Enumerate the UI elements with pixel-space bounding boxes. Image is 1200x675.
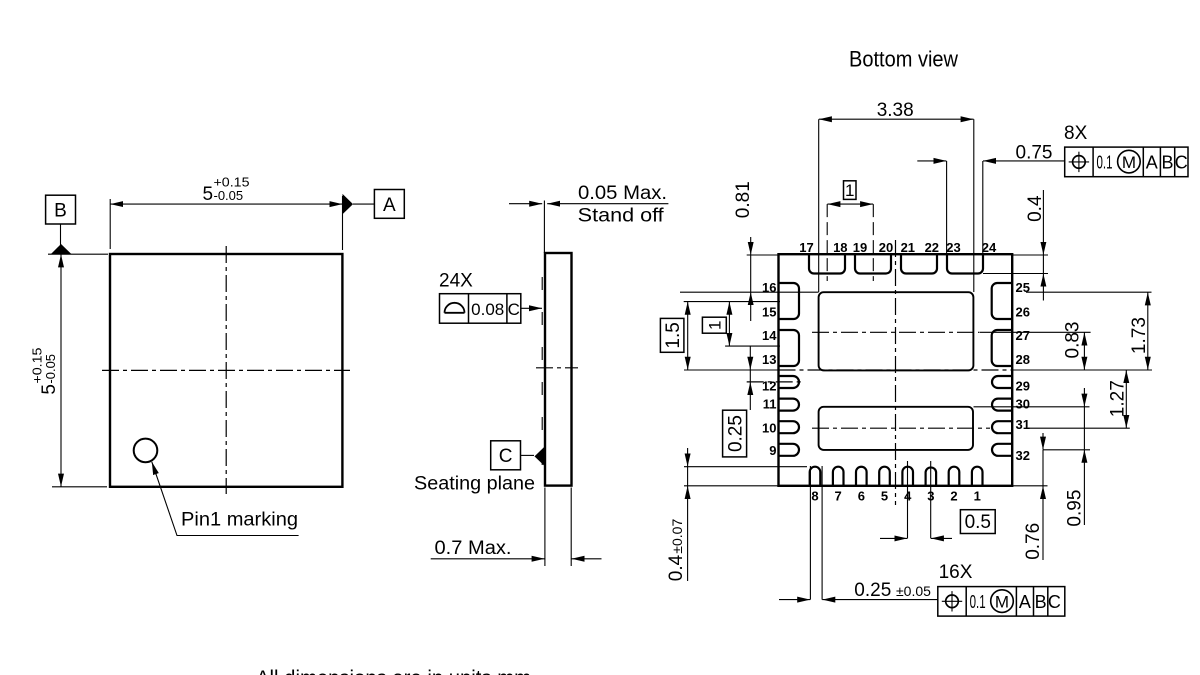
svg-text:14: 14 <box>762 328 777 343</box>
pkg top edge ext right <box>1013 254 1048 256</box>
dimension 1.73 <box>1147 292 1149 369</box>
dim 0.95 line body <box>1083 407 1085 450</box>
datum B triangle <box>51 244 72 254</box>
left wide pad 14/13 <box>779 330 800 366</box>
svg-text:Pin1 marking: Pin1 marking <box>181 510 298 531</box>
bottom view horizontal centerline <box>779 369 1014 371</box>
svg-text:8: 8 <box>811 489 818 504</box>
bottom view vertical centerline <box>895 240 897 505</box>
M circle modifier <box>1118 150 1141 173</box>
dimension 1.5 <box>687 302 689 370</box>
top pad 21/22 <box>901 254 937 273</box>
dimension 0.4 +-0.07 lower arrow <box>687 486 689 581</box>
svg-text:C: C <box>508 300 520 319</box>
svg-text:M: M <box>995 592 1009 611</box>
svg-text:12: 12 <box>762 378 776 393</box>
right wide pad 27/28 <box>992 330 1013 366</box>
dim text 1.27 <box>1108 380 1129 417</box>
dim 0.76 line body <box>1042 450 1044 486</box>
datum B leader <box>60 224 62 245</box>
svg-text:9: 9 <box>769 443 776 458</box>
lower thermal pad centerline <box>812 427 990 429</box>
pad 23/24 left edge ext <box>946 161 948 254</box>
svg-text:24: 24 <box>982 240 997 255</box>
dimension 1 left <box>728 302 730 346</box>
svg-text:5: 5 <box>39 384 60 395</box>
svg-text:19: 19 <box>853 240 867 255</box>
svg-text:22: 22 <box>925 240 939 255</box>
datum B box <box>46 195 76 224</box>
svg-text:2: 2 <box>950 489 957 504</box>
svg-text:-0.05: -0.05 <box>43 354 58 384</box>
svg-text:Stand off: Stand off <box>578 206 665 227</box>
thermal pad lower <box>819 407 973 450</box>
dim text 0.76 <box>1023 523 1044 560</box>
dimension 0.4 bottom arrow <box>1042 274 1044 301</box>
upper thermal centerline ext right <box>979 331 1090 333</box>
svg-text:B: B <box>1161 153 1173 173</box>
svg-text:5: 5 <box>881 489 888 504</box>
hidden lead line side view <box>541 277 543 472</box>
svg-text:A: A <box>1146 153 1158 173</box>
width dim right extension line <box>342 196 344 250</box>
dimension 0.05 standoff right arrow <box>547 203 668 205</box>
svg-text:±0.07: ±0.07 <box>669 519 685 554</box>
svg-text:7: 7 <box>835 489 842 504</box>
bottom pads top ext left <box>684 466 807 468</box>
profile of surface symbol <box>445 303 465 313</box>
package body bottom view <box>779 254 1013 486</box>
package body top view <box>110 254 342 487</box>
svg-text:0.1: 0.1 <box>1097 153 1113 173</box>
bottom pad 4 <box>902 467 913 486</box>
svg-text:0.76: 0.76 <box>1023 523 1044 560</box>
datum C box <box>491 441 521 470</box>
svg-text:27: 27 <box>1016 328 1030 343</box>
fcf arrow to lead <box>521 307 542 309</box>
svg-text:Bottom view: Bottom view <box>849 47 958 72</box>
height dim bottom extension line <box>52 486 107 488</box>
svg-text:8X: 8X <box>1064 123 1088 144</box>
svg-text:0.4: 0.4 <box>1025 195 1046 222</box>
svg-text:0.25: 0.25 <box>725 415 746 452</box>
right pad 29 <box>992 376 1012 388</box>
thermal pad left ext up <box>818 119 820 292</box>
dimension 0.5 left arrow <box>880 537 907 539</box>
svg-text:1.73: 1.73 <box>1129 317 1150 354</box>
pad 17/18 center ext dashed <box>826 204 828 281</box>
left pad 11 <box>779 399 800 411</box>
dim 0.25 line body <box>749 370 751 382</box>
pad12 centerline <box>747 381 801 383</box>
svg-text:Seating plane: Seating plane <box>414 474 535 495</box>
basic dim box 1 top <box>844 181 857 200</box>
dimension 0.25 +-0.05 right arrow <box>822 599 938 601</box>
svg-text:20: 20 <box>879 240 893 255</box>
pad 15/16 center ext <box>684 301 780 303</box>
lower thermal centerline ext right <box>1028 427 1130 429</box>
bottom pad 3 <box>926 467 937 485</box>
svg-text:0.7 Max.: 0.7 Max. <box>435 538 512 559</box>
lower thermal pad top ext right <box>974 406 1090 408</box>
pkg centerline ext right <box>1013 369 1152 371</box>
svg-text:1: 1 <box>974 489 981 504</box>
dimension 0.7 Max right segment <box>572 558 602 560</box>
svg-text:1: 1 <box>705 320 724 329</box>
svg-text:A: A <box>383 195 396 216</box>
dimension 0.76 lower arrow <box>1042 486 1044 560</box>
dim 0.81 line body <box>750 255 752 292</box>
dimension 0.25 upper arrow <box>749 346 751 370</box>
dim text 0.4 <box>1025 195 1046 222</box>
svg-text:0.08: 0.08 <box>471 300 504 319</box>
svg-text:All dimensions are in units mm: All dimensions are in units mm <box>256 667 531 675</box>
svg-text:0.25: 0.25 <box>854 580 891 601</box>
thickness dim right extension <box>570 488 572 567</box>
dimension line 5 height <box>60 254 62 486</box>
dimension 0.81 lower arrow <box>750 292 752 321</box>
dim text 0.95 <box>1065 490 1086 527</box>
datum C triangle <box>535 447 545 466</box>
datum B base extension line <box>48 253 108 255</box>
pkg centerline ext left <box>684 369 779 371</box>
basic dim box 1 left <box>702 317 726 333</box>
thermal pad upper <box>819 292 974 370</box>
datum A leader <box>353 203 374 205</box>
svg-text:0.83: 0.83 <box>1063 322 1084 359</box>
svg-text:0.05 Max.: 0.05 Max. <box>578 183 667 204</box>
svg-text:21: 21 <box>901 240 915 255</box>
bottom pad 8 <box>810 467 821 486</box>
svg-text:-0.05: -0.05 <box>214 188 244 203</box>
left pad 10 <box>779 421 800 433</box>
svg-text:0.1: 0.1 <box>970 592 986 612</box>
thickness dim left extension <box>544 488 546 567</box>
top view horizontal centerline <box>102 369 350 371</box>
position symbol bottom <box>946 595 959 608</box>
svg-text:±0.05: ±0.05 <box>896 583 931 599</box>
feature control frame 24x profile <box>440 294 521 324</box>
bottom pad 6 <box>856 467 867 486</box>
bottom pad 1 <box>972 467 983 486</box>
thermal pad top ext left <box>680 291 819 293</box>
svg-text:0.4: 0.4 <box>666 554 687 581</box>
pad 19/20 center ext dashed <box>872 204 874 281</box>
svg-text:17: 17 <box>799 240 813 255</box>
svg-text:3.38: 3.38 <box>877 100 914 121</box>
pad4 center ext <box>907 461 909 538</box>
rotated dim text 5 height <box>30 348 61 395</box>
dimension 0.75 pad width left arrow <box>917 160 946 162</box>
dimension 0.25 +-0.05 left arrow <box>779 599 810 601</box>
svg-text:1.27: 1.27 <box>1108 380 1129 417</box>
dimension 1 top pad pitch <box>827 203 873 205</box>
upper thermal pad centerline <box>812 331 979 333</box>
svg-text:18: 18 <box>833 240 847 255</box>
dimension 0.76 upper arrow <box>1042 433 1044 450</box>
svg-text:26: 26 <box>1016 305 1030 320</box>
bottom pad 7 <box>833 467 844 486</box>
svg-text:5: 5 <box>203 184 214 205</box>
side view centerline <box>536 367 578 369</box>
dim 0.4pm line body <box>687 467 689 486</box>
dimension 0.95 upper arrow <box>1083 388 1085 407</box>
dimension 0.75 pad width right arrow <box>983 160 1065 162</box>
dim text 1.73 <box>1129 317 1150 354</box>
svg-text:C: C <box>499 446 513 467</box>
left pad 9 <box>779 444 800 456</box>
svg-text:25: 25 <box>1016 280 1030 295</box>
pkg top edge ext left <box>747 254 779 256</box>
thermal pad top ext right <box>1026 291 1152 293</box>
svg-text:11: 11 <box>763 397 777 412</box>
left wide pad 16/15 <box>779 283 800 319</box>
datum C leader <box>521 454 535 456</box>
width dim left extension line <box>109 199 111 249</box>
pkg bottom edge ext right <box>1013 485 1048 487</box>
pkg bottom edge ext left <box>684 485 779 487</box>
svg-text:1: 1 <box>845 181 854 200</box>
position symbol <box>1073 156 1086 169</box>
svg-text:0.5: 0.5 <box>965 512 991 533</box>
lower thermal pad bottom ext right <box>1043 449 1090 451</box>
dimension 0.4 +-0.07 upper arrow <box>687 448 689 467</box>
pad 13/14 center ext <box>725 345 780 347</box>
svg-text:M: M <box>1122 153 1136 172</box>
basic dim box 0.5 <box>960 510 995 534</box>
svg-text:0.81: 0.81 <box>733 181 754 218</box>
top view vertical centerline <box>225 246 227 494</box>
pad8 left edge ext <box>809 466 811 600</box>
svg-text:C: C <box>1175 153 1188 173</box>
dimension line 5 width <box>110 203 342 205</box>
svg-text:16X: 16X <box>939 562 973 583</box>
bottom pad 2 <box>949 467 960 486</box>
dim text 0.83 <box>1063 322 1084 359</box>
svg-text:10: 10 <box>762 421 776 436</box>
dimension 1.27 <box>1125 370 1127 428</box>
feature control frame 8x position <box>1065 147 1188 177</box>
svg-text:1.5: 1.5 <box>663 322 684 348</box>
svg-text:B: B <box>1035 592 1047 612</box>
right pad 32 <box>992 444 1012 456</box>
svg-text:0.75: 0.75 <box>1016 142 1053 163</box>
left pad 12 <box>779 376 800 388</box>
dimension 0.05 standoff left arrow <box>509 203 542 205</box>
dimension 0.95 lower arrow <box>1083 450 1085 525</box>
pin1 marking circle <box>134 439 158 463</box>
top pads bottom ext right <box>983 273 1048 275</box>
top pad 17/18 <box>809 254 845 273</box>
svg-text:B: B <box>54 201 67 222</box>
right pad 31 <box>992 421 1012 433</box>
rotated dim text 0.4 +-0.07 <box>666 519 687 582</box>
pad8 right edge ext <box>821 466 823 600</box>
dimension 0.25 lower arrow <box>749 382 751 410</box>
datum A box <box>374 190 404 219</box>
svg-text:A: A <box>1019 592 1031 612</box>
package body side view <box>545 253 572 486</box>
bottom pad 5 <box>879 467 890 486</box>
dimension 0.4 top arrow <box>1042 190 1044 255</box>
dim text 0.81 <box>733 181 754 218</box>
datum A triangle <box>343 194 354 214</box>
svg-text:C: C <box>1048 592 1061 612</box>
top pad 23/24 <box>947 254 983 273</box>
svg-text:0.95: 0.95 <box>1065 490 1086 527</box>
svg-text:6: 6 <box>858 489 865 504</box>
svg-text:29: 29 <box>1016 378 1030 393</box>
svg-text:24X: 24X <box>439 271 473 292</box>
dimension 0.83 <box>1083 333 1085 370</box>
basic dim box 0.25 <box>723 410 747 457</box>
M circle modifier bottom <box>991 590 1014 613</box>
dimension 0.5 right arrow <box>931 537 952 539</box>
dimension 0.7 Max left segment <box>431 558 545 560</box>
right wide pad 25/26 <box>992 283 1013 319</box>
svg-text:4: 4 <box>904 489 912 504</box>
svg-text:31: 31 <box>1016 417 1030 432</box>
svg-text:32: 32 <box>1016 448 1030 463</box>
feature control frame 16x position <box>938 587 1065 617</box>
top pad 19/20 <box>855 254 891 273</box>
dimension 0.81 upper arrow <box>750 237 752 255</box>
thermal pad right ext up <box>973 119 975 292</box>
standoff extension line <box>543 201 545 254</box>
svg-text:13: 13 <box>762 352 776 367</box>
svg-text:15: 15 <box>762 305 776 320</box>
svg-text:16: 16 <box>762 280 776 295</box>
pad3 center ext <box>930 461 932 538</box>
svg-text:28: 28 <box>1016 352 1030 367</box>
pad 23/24 right edge ext <box>982 161 984 254</box>
right pad 30 <box>992 399 1012 411</box>
pin1 leader line <box>152 462 299 536</box>
dim 0.4 line body <box>1042 255 1044 274</box>
svg-text:23: 23 <box>946 240 960 255</box>
basic dim box 1.5 <box>660 318 684 352</box>
svg-text:30: 30 <box>1016 397 1030 412</box>
dimension 3.38 thermal pad width <box>819 118 974 120</box>
